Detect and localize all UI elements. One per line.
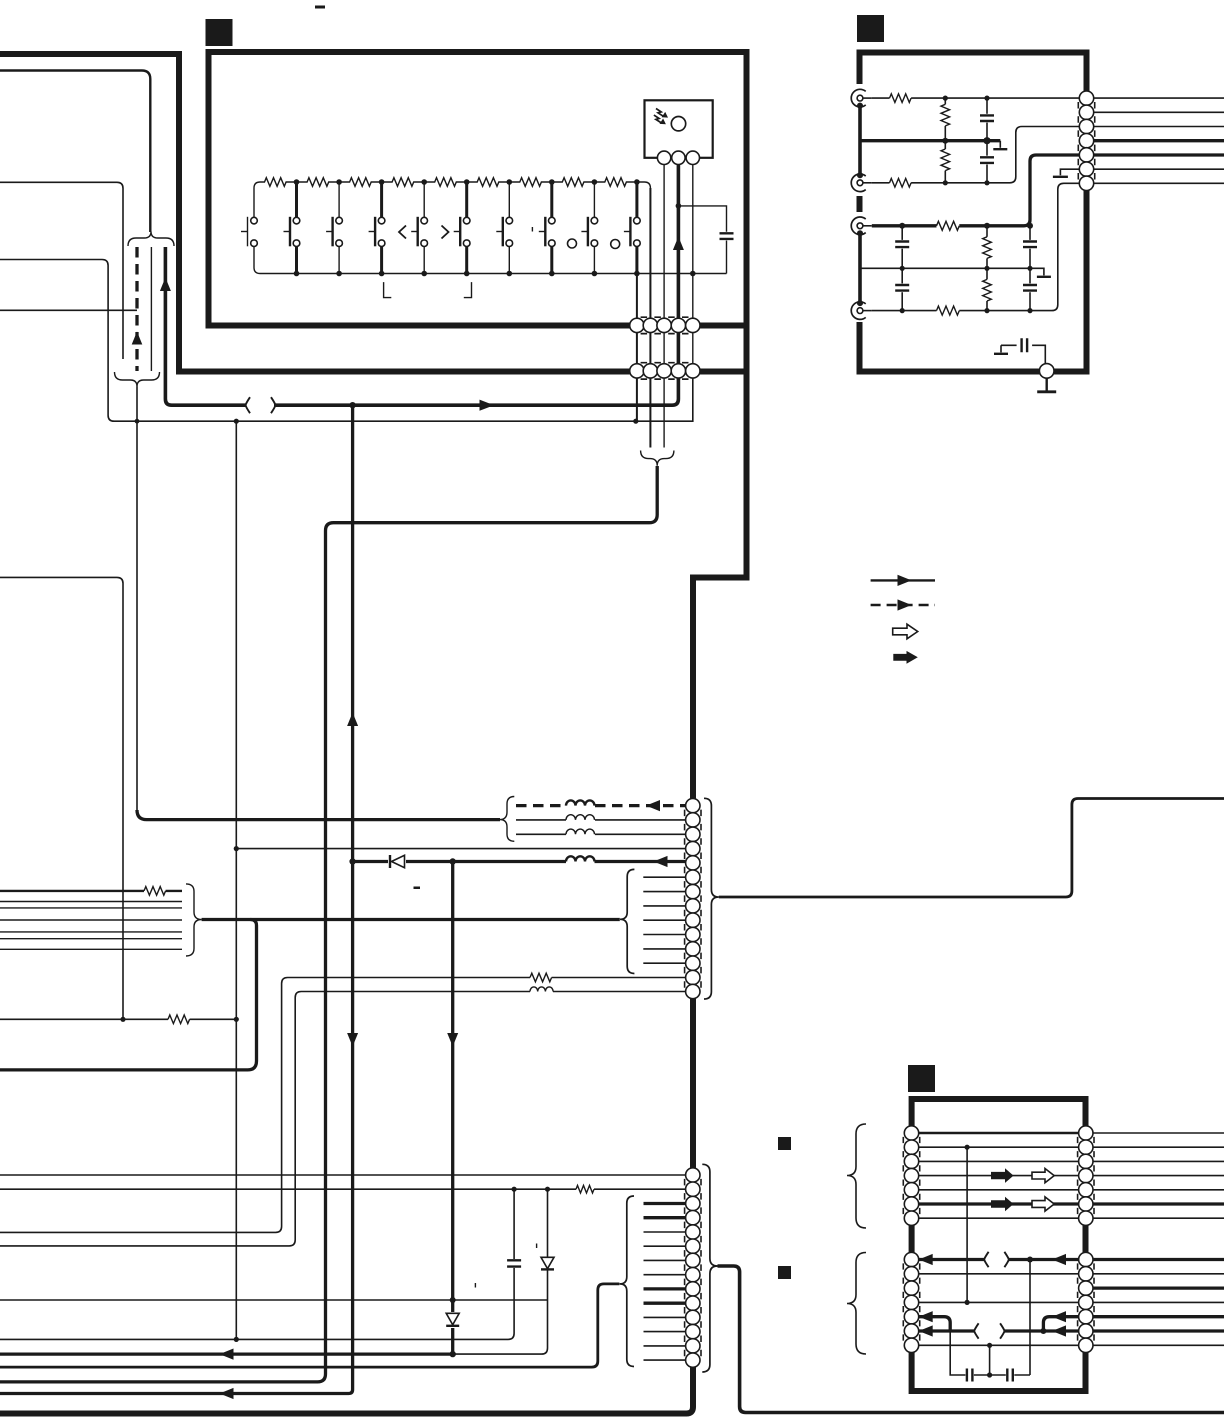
connector housing dashes lower column — [685, 1179, 701, 1357]
push switch S9 with indicator circle — [568, 182, 598, 274]
ground capacitor near bottom edge — [1001, 345, 1045, 363]
IR module pin 1 wire — [663, 158, 665, 318]
bottom-right board box outline — [912, 1099, 1086, 1391]
diode on x452 wire (pointing down) — [446, 1312, 460, 1328]
stub wires from brace to circles 6-12 — [643, 877, 685, 963]
up arrow on IR data wire — [673, 237, 684, 251]
below row2 stubs to junctions and brace — [637, 378, 651, 447]
long vertical wire x352 with up and down arrows, to bottom-left arrow line — [0, 405, 353, 1393]
legend dashed signal line with right arrow — [871, 604, 935, 606]
IR module pin circles — [657, 151, 670, 164]
thin line y1300 from left edge to diode column — [0, 1299, 548, 1301]
capacitor between ground bus 2 and jack4 line — [901, 268, 903, 283]
row A3 wire — [919, 1160, 1224, 1162]
branch of y919 wire curving down x256 then left to edge y1070 — [0, 920, 257, 1070]
remote wire to circle 2 with coil — [516, 819, 685, 821]
brace joining two wires under front panel connector — [641, 451, 674, 466]
jack 1 signal line with resistor to pin 1 — [872, 97, 890, 99]
text remnant tick — [531, 227, 533, 232]
capacitor between ground bus and jack2 line — [986, 141, 988, 156]
resistor ladder R between jack1 line and ground bus — [944, 98, 946, 104]
coil on y861 wire — [566, 856, 595, 861]
remote wire to circle 3 with coil — [516, 833, 685, 835]
key matrix bottom rail — [254, 247, 727, 274]
stub wires to circles 11-14 — [644, 1317, 686, 1360]
ground link jack3-jack4 — [858, 233, 862, 303]
RCA jack 3 — [851, 217, 872, 236]
IR remote sensor module body — [645, 100, 713, 158]
row B4 wire — [919, 1301, 1224, 1303]
section label square upper group — [778, 1137, 791, 1150]
right brace of lower connector — [702, 1164, 717, 1372]
push switch S7 — [496, 182, 512, 274]
group of six wires from left edge with brace — [0, 890, 144, 892]
wire from left edge y182 down along x123 — [0, 182, 123, 359]
long line y1175 from left edge to lower connector circle 1 — [0, 1174, 685, 1176]
input jack board label square — [857, 15, 884, 42]
gaps in left edge for jacks — [853, 84, 866, 196]
jack 4 signal line with resistor, up to pin 7 — [872, 310, 937, 312]
legend hollow arrow — [893, 624, 918, 639]
wire from left edge y1232 up x282 to connector circle 13 with resistor — [0, 978, 530, 1233]
push switch S2 — [284, 182, 300, 274]
capacitor between jack3 line and ground bus 2 (right) — [1029, 226, 1031, 240]
RCA jack 1 — [851, 89, 872, 108]
brace left of upper pin group — [847, 1124, 866, 1228]
ground link jack1-jack2 — [858, 106, 862, 176]
key matrix rail junction dots — [294, 179, 300, 185]
branch wire x967 from row A2 to row B4 — [966, 1147, 968, 1302]
resistor on first group wire — [144, 887, 166, 896]
jack 3 signal line (thick) with resistor, up to pin 5 — [872, 224, 937, 227]
thick wire y919 from brace to mid connector brace — [202, 918, 620, 921]
left arrow on bottom wire y1393 — [220, 1388, 234, 1399]
row A7 wire — [919, 1217, 1224, 1219]
power supply capacitor beside switch — [678, 206, 726, 274]
legend solid signal line with right arrow — [871, 579, 935, 581]
row A5 wire — [919, 1189, 1224, 1191]
push switch S5 with left label "<" — [399, 182, 428, 274]
connector pins on right edge — [1079, 91, 1093, 105]
IR sensor lens circle — [671, 117, 685, 131]
row B3 wire to right edge (thick) — [1094, 1286, 1224, 1289]
push switch S6 with left label ">" — [442, 182, 471, 274]
stub wires to circles 9-10 (thick) — [644, 1289, 686, 1303]
push switch S1 — [241, 217, 257, 247]
thick interconnect line from top-left board to main bus — [176, 369, 750, 375]
text crop mark right — [464, 282, 472, 298]
row A4 wire with direction arrows — [919, 1175, 1224, 1177]
top-left board outline right edge — [176, 51, 182, 372]
middle connector circles c1-c14 on bus — [686, 798, 700, 812]
dashed remote wire to circle 1 with coil and left arrow — [516, 804, 566, 807]
wire from left edge y310 to dashed bundle line — [0, 309, 137, 311]
resistor between jack3 line and ground bus 2 — [986, 226, 988, 237]
long vertical wire x452 with down arrow — [451, 862, 454, 1355]
branch from row B7 to capacitor midpoint — [989, 1345, 991, 1375]
pin 4 wire to right edge (thick) — [1094, 139, 1224, 142]
capacitor between jack1 line and ground bus — [986, 98, 988, 114]
section label square lower group — [778, 1266, 791, 1279]
right brace of middle connector — [704, 798, 719, 999]
text crop mark left — [384, 282, 392, 298]
IR beam symbol (two bolts) — [656, 109, 663, 117]
wire from left edge y259.5 down x108 then right along y421 to connector column — [0, 260, 693, 422]
capacitor between ground bus 2 and jack4 line (right) — [1029, 268, 1031, 283]
connector housing dashes BR pin columns — [903, 1137, 919, 1342]
bundle output wire x137 down then right (thick) to remote brace point — [136, 387, 138, 813]
dot junction x137 on y421 line — [135, 419, 140, 424]
key matrix top rail with series resistors R1-R9 — [254, 178, 650, 319]
left brace grouping lower connector circles 3-14 — [620, 1196, 634, 1367]
legend filled arrow — [893, 651, 918, 664]
board-edge connector row 1 (on box bottom edge) — [630, 318, 644, 332]
row B2 wire — [919, 1273, 1224, 1275]
row B6 wire (thick) with arrows and splice — [919, 1329, 974, 1332]
diode branch x547 down to thick arrow line y1354 — [547, 1189, 549, 1256]
push switch S4 — [369, 182, 385, 274]
capacitor branch x514 down to line y1339 going left — [513, 1189, 515, 1259]
row A2 wire with branch junction — [919, 1146, 1224, 1148]
RCA jack 4 — [851, 300, 872, 319]
cable bundle thick wire turning right along y405 with up arrow, to connector pin column — [165, 158, 678, 405]
branch wire x1030 from row B1 down to capacitors — [1029, 1260, 1031, 1376]
brace gathering group wires — [186, 884, 202, 956]
stub wires to circles 3-4 (thick) — [644, 1204, 686, 1218]
row B1 wire (thick) with arrows, splice and branch — [919, 1258, 984, 1261]
top-left board outline (partial box, top edge) — [0, 51, 179, 57]
wire y1019 with resistor from left edge to x236 — [0, 1018, 168, 1020]
brace grouping circles 6-12 — [620, 869, 634, 973]
thick wire from under-panel brace down left side to bottom-left edge — [0, 466, 657, 1382]
connector housing dashes rows — [641, 317, 689, 379]
resistor between ground bus and jack2 line — [941, 149, 950, 171]
front panel board box outline — [209, 52, 747, 326]
cable splice break on y405 wire — [247, 400, 275, 411]
brace grouping three remote lines — [500, 797, 515, 842]
capacitor between jack3 line and ground bus 2 — [901, 226, 903, 240]
push switch S3 — [326, 182, 342, 274]
jack 2 signal line with resistor, up to pin 3 — [872, 182, 890, 184]
board-edge connector row 1 verticals — [637, 188, 651, 364]
chassis ground terminal on bottom edge — [1039, 364, 1054, 379]
cable bundle dashed wire with up arrow — [135, 247, 138, 371]
push switch S10 (power) with indicator circle — [611, 182, 641, 274]
text remnant dash — [414, 887, 421, 890]
ground bus of jacks 1-2 with stub — [860, 139, 1000, 142]
wire from left edge y1246 up x295 to connector circle 14 with coil — [0, 992, 530, 1246]
row B5 wire (thick) with arrows and jogs — [919, 1317, 1079, 1331]
right pin column — [1079, 1126, 1093, 1140]
group wires 2-6 — [0, 901, 182, 903]
push switch S8 — [539, 182, 555, 274]
left pin column — [904, 1126, 918, 1140]
row B7 wire — [919, 1344, 1224, 1346]
pin 2 wire to right edge — [1094, 111, 1224, 113]
IR module pin 3 / ground wire — [692, 158, 694, 318]
front panel board label square — [206, 19, 233, 46]
connector housing dashes mid column — [685, 810, 701, 988]
left arrow on y861 wire — [654, 856, 668, 867]
diode (cathode left) on y861 wire — [388, 855, 406, 868]
wire from left edge y577 down x123 to resistor line — [0, 577, 123, 1019]
brace left of lower pin group — [847, 1253, 866, 1355]
wire from left edge into cable bundle top — [0, 71, 150, 233]
resistor between ground bus 2 and jack4 line — [983, 279, 992, 301]
main signal bus (thick) from front panel box down to bottom-left — [0, 323, 747, 1414]
line y1189 with resistor from left edge to lower connector circle 2 — [0, 1188, 576, 1190]
row A6 wire (thick) with direction arrows — [919, 1202, 1224, 1205]
lower connector circles c1-c14 on bus — [686, 1168, 700, 1182]
board-edge connector row 2 (on interconnect line) — [630, 364, 644, 378]
capacitor pair at box bottom — [950, 1331, 1030, 1375]
input jack board box outline — [860, 53, 1087, 372]
cable bundle middle thin wire — [150, 247, 152, 371]
thick arrow wire y1354 to left edge — [0, 1352, 453, 1355]
long thin vertical x236 — [235, 421, 237, 1339]
wire from middle connector brace stepping up to right edge — [719, 799, 1224, 898]
row A1 wire — [919, 1132, 1079, 1134]
cable bundle bottom brace — [115, 372, 160, 387]
text remnant ticks — [475, 1244, 536, 1288]
RCA jack 2 — [851, 172, 872, 191]
cable bundle top brace — [128, 232, 174, 247]
right arrow on y405 wire — [480, 400, 495, 411]
long thin wire y848 from x236 junction to connector circle 4 — [236, 848, 685, 850]
stub wires to circles 5-8 — [644, 1232, 686, 1275]
ground bus of jacks 3-4 with stub — [860, 268, 1044, 275]
pin 6 wire with ground stub — [1060, 169, 1079, 175]
connector housing dashes TR pin column — [1078, 102, 1094, 181]
thick wire y861 with diode and coil to connector circle 5 — [353, 860, 566, 863]
bottom-right board label square — [908, 1065, 935, 1092]
medium wire y1367 from left edge up x598 to lower connector brace point — [0, 1284, 619, 1367]
wire from lower connector right brace to bottom-right — [718, 1266, 1224, 1413]
dash text remnant above box — [315, 6, 325, 9]
